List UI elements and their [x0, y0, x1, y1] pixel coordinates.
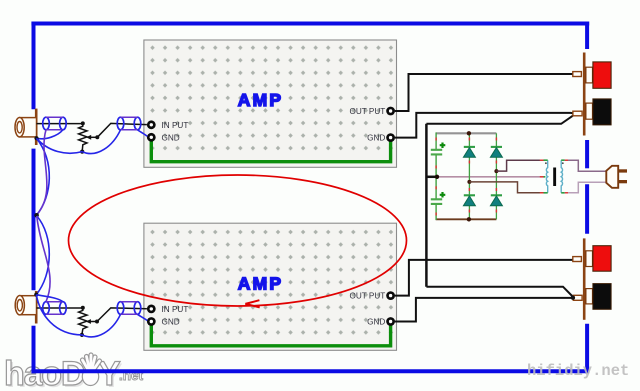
RCA jack J2 face outer ring: [15, 296, 24, 315]
amp board U2 terminal IN PUT: [147, 305, 156, 314]
transformer T1 primary winding coil: [561, 160, 562, 193]
chassis border bottom wall: [31, 369, 589, 373]
shielded cable W2b right ellipse: [134, 302, 141, 315]
node black post B wire junction: [571, 296, 575, 300]
svg-text:GND: GND: [162, 133, 180, 142]
wire U1 OUT PUT to red post A: [395, 74, 573, 111]
transformer T1 primary pin stubs: [561, 160, 565, 193]
ground loop ellipse: [69, 175, 407, 307]
diode D3 cathode bar: [491, 146, 502, 148]
svg-text:AMP: AMP: [238, 90, 284, 110]
capacitor C1 plates: [431, 150, 442, 155]
binding post panel strip B: [583, 238, 586, 319]
RCA jack J2 face inner ring: [17, 300, 22, 311]
chassis border right wall segment 1: [585, 22, 589, 50]
diode D3 lead column B: [495, 133, 497, 219]
amp board U1 ground bus: [151, 141, 390, 162]
transformer T1 core: [553, 168, 556, 187]
svg-text:OUT PUT: OUT PUT: [350, 292, 386, 301]
red pin mark D4 bottom: [495, 210, 497, 213]
red pin mark transformer primary top: [565, 159, 568, 161]
ground loop highlight ellipse: [69, 175, 407, 306]
watermark haoDY.net: [4, 355, 144, 391]
red pin mark D1 bottom: [468, 161, 470, 164]
crimp terminal black post B: [573, 295, 582, 300]
transformer T1 phase dot primary: [562, 162, 564, 164]
chassis border top wall: [31, 22, 589, 26]
node pot VR2 top junction: [81, 306, 85, 310]
power supply: [431, 131, 627, 221]
wire U2 OUT PUT to red post B: [395, 260, 573, 296]
wire J1 center pin to pot VR1: [37, 123, 83, 125]
node pot VR2 bottom junction: [80, 333, 84, 337]
input section channel 1: [15, 109, 147, 302]
shielded cable W1b right ellipse: [134, 117, 141, 130]
chassis border: [31, 22, 589, 374]
amp board U1 terminal GND right: [386, 133, 395, 142]
diode D2 triangle: [463, 196, 475, 206]
crimp terminal red post A: [573, 72, 582, 77]
capacitor C2 polarity plus: [440, 192, 446, 198]
chassis border right wall segment 3: [585, 184, 589, 234]
wire U2 GND to black post B: [395, 298, 574, 322]
amp board U1: [144, 40, 397, 167]
node J1 ground junction: [34, 136, 38, 140]
center tap line to transformer: [437, 176, 544, 178]
binding post red A lug: [586, 67, 593, 83]
transformer T1 secondary winding coil: [546, 160, 547, 193]
wire cable W2b shield to GND terminal (blue): [138, 314, 148, 320]
svg-text:hifidiy.net: hifidiy.net: [527, 362, 629, 380]
wire pot VR1 bottom to cable W1b shield (blue): [82, 130, 120, 154]
wire J1 ground to pot VR1 bottom (blue): [37, 138, 83, 153]
wire U1 GND to black post A: [395, 113, 574, 138]
svg-text:OUT PUT: OUT PUT: [350, 107, 386, 116]
node pot VR1 wiper junction: [95, 135, 99, 139]
red pin mark transformer primary bottom: [565, 192, 568, 194]
wire center tap bus to rectifier center: [426, 176, 437, 179]
input section channel 2: [15, 291, 147, 337]
transformer T1 secondary pin stubs: [544, 160, 548, 193]
potentiometer VR2 resistor zigzag: [79, 308, 87, 335]
transformer T1 phase dot secondary: [545, 162, 547, 164]
shielded cable W2b bottom sheath line: [121, 313, 138, 315]
shielded cable W1b bottom sheath line: [121, 129, 138, 131]
watermark hifidiy.net: [527, 362, 629, 380]
node bridge AC column A: [467, 180, 471, 184]
capacitor C1 polarity plus: [440, 143, 446, 149]
wire J2 center pin to pot VR2: [37, 307, 83, 309]
RCA jack J1 face outer ring: [15, 118, 24, 137]
red pin mark D4 top: [495, 188, 497, 191]
wire J2 ground to pot VR2 bottom (blue): [36, 295, 82, 335]
shielded cable W2a left ellipse: [43, 302, 50, 315]
crimp terminal red post B: [573, 257, 582, 262]
red pin mark C2 bottom: [435, 213, 437, 216]
amp board U2 terminal GND right: [386, 317, 395, 326]
node pot VR1 top junction: [81, 121, 85, 125]
RCA jack J2 mounting strip: [35, 291, 38, 324]
shielded cable W1a right ellipse: [60, 117, 67, 130]
AC plug P1 prong top: [618, 169, 627, 172]
capacitor C2 bottom lead: [435, 205, 437, 220]
chassis border right wall segment 4: [585, 324, 589, 374]
RCA jack J1 mounting strip: [35, 109, 38, 145]
red pin mark D1 top: [468, 138, 470, 141]
wire bridge column B to transformer secondary top: [496, 160, 543, 171]
ground loop direction arrowhead: [245, 300, 259, 307]
svg-text:GND: GND: [367, 133, 385, 142]
rectifier negative rail: [436, 218, 497, 220]
amp board U1 terminal GND left: [147, 133, 156, 142]
node left wall ground junction: [34, 213, 39, 218]
node J2 ground junction: [34, 293, 38, 297]
shielded cable W1a bottom sheath line: [46, 129, 63, 131]
svg-text:IN PUT: IN PUT: [162, 121, 189, 130]
diode D1 triangle: [463, 148, 475, 158]
node pot VR2 wiper junction: [95, 320, 99, 324]
wire J2 ground to cable W2a shield (blue): [36, 295, 63, 302]
amp board U1 terminal OUT PUT: [386, 107, 395, 116]
RCA jack J1 barrel: [20, 118, 37, 137]
potentiometer VR2 wiper arm: [90, 321, 97, 323]
capacitor C1 bottom lead: [435, 155, 437, 177]
shielded cable W2a bottom sheath line: [46, 313, 63, 315]
binding post red B cap: [593, 246, 611, 272]
potentiometer VR1 wiper arm: [90, 136, 97, 138]
wire pot VR2 wiper to cable shield segment and IN PUT: [97, 308, 147, 322]
shielded cable W2b left ellipse: [117, 302, 124, 315]
binding post panel strip A: [583, 53, 586, 136]
red pin mark D2 bottom: [468, 210, 470, 213]
red pin mark D2 top: [468, 188, 470, 191]
wire supply center tap bus vertical: [425, 124, 428, 287]
wire cable W1b shield to GND terminal (blue): [138, 130, 148, 137]
shielded cable W1b top sheath line: [121, 116, 138, 118]
shielded cable W2b top sheath line: [121, 301, 138, 303]
potentiometer VR2 wiper arrowhead: [86, 319, 91, 324]
amp board U2 terminal GND left: [147, 317, 156, 326]
RCA jack J1 face inner ring: [17, 122, 22, 133]
svg-text:GND: GND: [367, 318, 385, 327]
node pot VR1 bottom junction: [80, 150, 84, 154]
wire pot VR1 wiper to cable shield segment and IN PUT: [97, 123, 147, 137]
red pin mark transformer secondary bottom: [540, 192, 544, 194]
binding post black B cap: [593, 284, 611, 310]
shielded cable W2a top sheath line: [46, 301, 63, 303]
svg-text:IN PUT: IN PUT: [162, 305, 189, 314]
red pin mark C1 bottom: [435, 166, 437, 169]
red pin mark transformer secondary top: [540, 159, 544, 161]
binding post red A cap: [593, 62, 611, 88]
wire left wall junction to J2 ground (blue): [36, 216, 49, 295]
amp board U1 terminal IN PUT: [147, 120, 156, 129]
binding post black B lug: [586, 289, 593, 304]
AC plug P1 prong bottom: [618, 180, 627, 183]
svg-text:AMP: AMP: [238, 274, 284, 294]
chassis border left wall segment 1: [32, 22, 36, 110]
diode D4 cathode bar: [491, 194, 502, 196]
diode D3 triangle: [490, 148, 502, 158]
wire center tap bus to black post B: [426, 287, 573, 298]
node negative rail junction: [467, 217, 471, 221]
shielded cable W1a top sheath line: [46, 116, 63, 118]
diode D1 lead column A: [468, 133, 470, 219]
binding post black A cap: [593, 99, 611, 125]
amp board U2 terminal OUT PUT: [386, 291, 395, 300]
crimp terminal black post A: [573, 111, 582, 116]
red pin mark C1 top: [435, 138, 437, 141]
potentiometer VR1 wiper arrowhead: [86, 135, 91, 140]
wire primary to plug neutral: [565, 182, 607, 193]
amp board U2: [144, 223, 397, 350]
wire center tap bus to black post A: [426, 115, 574, 124]
wire J1 ground to cable W1a shield (blue): [37, 130, 63, 139]
potentiometer VR1 resistor zigzag: [79, 123, 87, 151]
node bridge AC column B: [494, 169, 498, 173]
watermark hand symbol: [82, 355, 99, 386]
AC plug P1 body: [606, 166, 618, 188]
shielded cable W2a right ellipse: [60, 302, 67, 315]
shielded cable W1a left ellipse: [43, 117, 50, 130]
output wires and posts: [395, 53, 611, 322]
red pin mark C2 top: [435, 186, 437, 189]
node positive rail junction: [467, 131, 471, 135]
chassis border left wall segment 2: [32, 149, 36, 291]
wire left wall junction to cable W2a shield (violet): [37, 216, 50, 302]
wire J1 ground down left wall (blue): [37, 138, 50, 215]
diode D4 triangle: [490, 196, 502, 206]
chassis border right wall segment 2: [585, 140, 589, 168]
wire primary to plug live: [565, 160, 607, 171]
svg-text:GND: GND: [162, 318, 180, 327]
capacitor C1 top lead: [435, 133, 437, 150]
capacitor C2 top lead: [435, 177, 437, 199]
node center tap at C1 C2: [435, 175, 439, 179]
binding post black A lug: [586, 103, 593, 119]
binding post red B lug: [586, 251, 593, 267]
rectifier positive rail: [436, 132, 497, 134]
amp board U2 ground bus: [151, 325, 390, 346]
wire pot VR2 bottom to cable W2b shield (blue): [82, 314, 121, 337]
wire cable W1a shield down left wall (violet): [37, 130, 47, 215]
diode D1 cathode bar: [464, 146, 475, 148]
red pin mark transformer secondary center: [540, 176, 544, 178]
shielded cable W1b left ellipse: [117, 117, 124, 130]
RCA jack J2 barrel: [20, 296, 37, 315]
diode D2 cathode bar: [464, 194, 475, 196]
wire bridge column A to transformer secondary bottom: [469, 182, 543, 193]
red pin mark D3 bottom: [495, 161, 497, 164]
chassis border left wall segment 3: [32, 326, 36, 374]
capacitor C2 plates: [431, 199, 442, 204]
red pin mark D3 top: [495, 138, 497, 141]
